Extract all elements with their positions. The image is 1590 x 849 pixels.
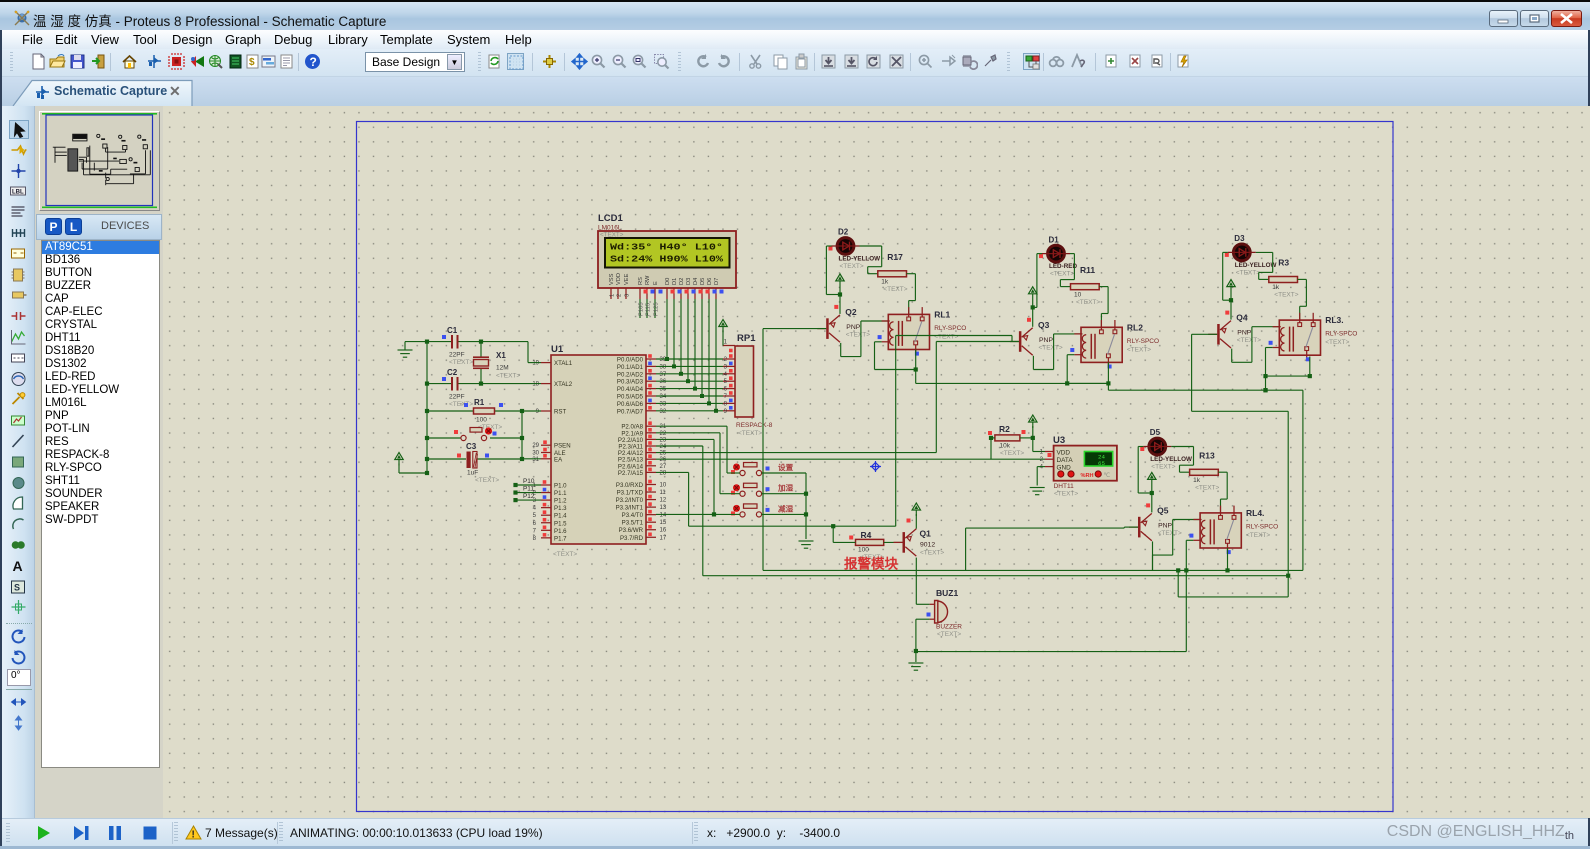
wire buzzer bottom to ground [916, 618, 930, 620]
svg-text:?: ? [310, 55, 317, 69]
svg-text:<TEXT>: <TEXT> [846, 331, 870, 338]
wire D5 cathode to R13 [1171, 446, 1193, 448]
wire D2 anode loop + power [826, 245, 831, 247]
wire R3 to relay coil-top pin [1298, 278, 1307, 280]
svg-text:P1.1: P1.1 [554, 490, 567, 497]
svg-text:PNP: PNP [1039, 337, 1053, 344]
power arrow (Q2 emitter) [836, 274, 844, 281]
svg-text:<TEXT>: <TEXT> [1050, 271, 1074, 278]
wire RL4. coil bottom [1186, 539, 1193, 541]
wire bottom return y=651 [916, 651, 1186, 653]
wire R13 to relay coil-top pin [1218, 471, 1227, 473]
wire long bus y=570.4 (Q2 base net) [763, 569, 1303, 571]
svg-text:<TEXT>: <TEXT> [1054, 491, 1078, 498]
svg-text:34: 34 [660, 394, 667, 400]
svg-text:<TEXT>: <TEXT> [1325, 339, 1349, 346]
svg-text:RL1: RL1 [934, 309, 950, 319]
svg-text:PSEN: PSEN [554, 443, 571, 450]
svg-text:31: 31 [532, 457, 539, 463]
svg-text:1uF: 1uF [467, 470, 478, 477]
svg-text:R11: R11 [1080, 265, 1095, 275]
svg-text:Q5: Q5 [1157, 505, 1169, 515]
transistor Q2 PNP [817, 305, 870, 342]
svg-text:36: 36 [660, 379, 667, 385]
svg-text:P3.6/WR: P3.6/WR [619, 527, 644, 534]
wire D5 anode loop + power [1138, 446, 1143, 448]
svg-text:<TEXT>: <TEXT> [1195, 484, 1219, 491]
wire R2 leads [991, 437, 995, 439]
svg-text:RLY-SPCO: RLY-SPCO [1127, 338, 1159, 345]
svg-text:U1: U1 [551, 344, 564, 355]
svg-text:P115: P115 [646, 303, 652, 316]
svg-text:S: S [14, 582, 20, 592]
svg-text:25: 25 [660, 451, 667, 457]
svg-text:<TEXT>: <TEXT> [934, 333, 958, 340]
svg-text:P0.7/AD7: P0.7/AD7 [617, 408, 644, 415]
svg-text:A: A [13, 558, 23, 574]
svg-text:BUZZER: BUZZER [936, 624, 962, 631]
svg-text:10: 10 [660, 483, 667, 489]
svg-text:RLY-SPCO: RLY-SPCO [1246, 523, 1278, 530]
svg-text:P12: P12 [523, 493, 535, 500]
power arrow (DHT11 VDD) [1029, 415, 1037, 422]
wire DATA net [656, 458, 1045, 460]
svg-text:P3.5/T1: P3.5/T1 [622, 520, 644, 527]
svg-text:C2: C2 [447, 368, 458, 377]
svg-text:<TEXT>: <TEXT> [496, 373, 520, 380]
svg-text:LED-YELLOW: LED-YELLOW [1150, 456, 1192, 463]
svg-text:U3: U3 [1053, 435, 1065, 446]
svg-text:Q1: Q1 [920, 529, 932, 539]
net labels P10 P11 P12 [515, 484, 541, 486]
svg-text:11: 11 [660, 490, 667, 496]
svg-text:14: 14 [660, 513, 667, 519]
DHT11 U3 [1040, 435, 1117, 498]
svg-text:RP1: RP1 [737, 333, 756, 344]
reset button [427, 427, 522, 440]
wire Q2 emitter up [839, 295, 841, 314]
svg-text:Sd:24% H90% L10%: Sd:24% H90% L10% [610, 254, 723, 265]
svg-text:26: 26 [660, 457, 667, 463]
svg-text:RL2: RL2 [1127, 322, 1143, 332]
power arrow (Q1 emitter) [912, 503, 920, 510]
buzzer BUZ1 [927, 588, 963, 638]
svg-text:100: 100 [476, 417, 487, 424]
svg-text:<TEXT>: <TEXT> [883, 286, 907, 293]
svg-text:RS: RS [638, 277, 644, 285]
svg-text:P3.0/RXD: P3.0/RXD [616, 482, 644, 489]
wire Q3 base [936, 341, 1019, 343]
svg-text:<TEXT>: <TEXT> [475, 477, 499, 484]
wire left vertical [426, 342, 428, 473]
svg-text:18: 18 [532, 382, 539, 388]
wire Q2 base [763, 328, 826, 330]
svg-text:<TEXT>: <TEXT> [937, 631, 961, 638]
svg-text:<TEXT>: <TEXT> [449, 359, 473, 366]
svg-text:10: 10 [1074, 291, 1082, 298]
svg-text:P0.0/AD0: P0.0/AD0 [617, 357, 644, 364]
wire C1 row [405, 341, 451, 343]
svg-text:C1: C1 [447, 326, 458, 335]
resistor R1 [427, 398, 541, 431]
svg-text:<TEXT>: <TEXT> [1151, 464, 1175, 471]
svg-text:D4: D4 [693, 278, 699, 285]
LED D5 LED-YELLOW [1140, 428, 1192, 470]
svg-text:R3: R3 [1278, 258, 1289, 268]
svg-text:R17: R17 [887, 252, 903, 262]
svg-text:38: 38 [660, 364, 667, 370]
svg-text:D3: D3 [686, 278, 692, 285]
wire long bus y=528.1 (to Q5 base) [966, 527, 1125, 529]
svg-text:P0.4/AD4: P0.4/AD4 [617, 386, 644, 393]
svg-text:D2: D2 [679, 278, 685, 285]
svg-text:D0: D0 [665, 278, 671, 285]
wire R1/button/C3 right vertical [521, 411, 523, 459]
svg-text:减湿: 减湿 [778, 503, 794, 513]
ground (crystal) [398, 349, 413, 351]
wire D3 cathode to R3 [1256, 251, 1273, 253]
svg-text:P0.3/AD3: P0.3/AD3 [617, 379, 644, 386]
wire Q5 collector to coil top [1152, 541, 1154, 555]
wire D1 cathode to R11 [1070, 253, 1074, 255]
svg-text:R4: R4 [861, 530, 872, 540]
svg-text:<TEXT>: <TEXT> [920, 550, 944, 557]
svg-text:DHT11: DHT11 [1054, 483, 1074, 490]
svg-text:P1.4: P1.4 [554, 513, 567, 520]
svg-text:PNP: PNP [1237, 330, 1251, 337]
resistor R17 [878, 252, 908, 293]
svg-text:!: ! [192, 830, 195, 841]
svg-text:设置: 设置 [778, 462, 794, 472]
svg-text:29: 29 [532, 443, 539, 449]
svg-text:16: 16 [660, 528, 667, 534]
wire Q3 collector to coil top [1032, 356, 1034, 370]
ground (buttons) [799, 540, 814, 542]
svg-text:LED-YELLOW: LED-YELLOW [839, 256, 881, 263]
svg-text:P3.4/T0: P3.4/T0 [622, 512, 644, 519]
svg-text:P105: P105 [639, 302, 645, 316]
svg-text:32: 32 [660, 409, 667, 415]
svg-text:D5: D5 [1150, 428, 1161, 437]
svg-text:65: 65 [1098, 460, 1105, 467]
svg-text:$: $ [249, 57, 255, 68]
svg-text:<TEXT>: <TEXT> [1274, 292, 1298, 299]
push buttons 设置/加湿/减湿 [731, 462, 794, 476]
power arrow (Q4 emitter) [1227, 280, 1235, 287]
svg-text:RL3.: RL3. [1325, 315, 1343, 325]
svg-text:RESPACK-8: RESPACK-8 [736, 422, 773, 429]
svg-text:33: 33 [660, 401, 667, 407]
svg-text:PNP: PNP [1158, 522, 1172, 529]
svg-text:P2.7/A15: P2.7/A15 [618, 470, 644, 477]
svg-text:XTAL2: XTAL2 [554, 381, 573, 388]
svg-text:28: 28 [660, 470, 667, 476]
wire Q5 base [1124, 526, 1138, 528]
capacitor C1 [442, 326, 473, 366]
svg-text:D5: D5 [700, 278, 706, 285]
svg-text:报警模块: 报警模块 [844, 556, 898, 572]
wire long bus y=575.7 (P2.3) [656, 445, 703, 447]
svg-text:D2: D2 [838, 228, 849, 237]
svg-text:X1: X1 [496, 351, 506, 360]
svg-text:22PF: 22PF [449, 352, 465, 359]
svg-text:13: 13 [660, 505, 667, 511]
svg-text:RLY-SPCO: RLY-SPCO [1325, 331, 1357, 338]
svg-text:1k: 1k [881, 278, 889, 285]
relay RL3. RLY-SPCO [1269, 313, 1358, 362]
wire D3 anode loop + power [1223, 251, 1228, 253]
svg-text:RLY-SPCO: RLY-SPCO [934, 325, 966, 332]
power arrow (Q5 emitter) [1148, 472, 1156, 479]
capacitor C2 [442, 368, 473, 408]
svg-text:P3.3/INT1: P3.3/INT1 [616, 505, 644, 512]
ground (buzzer) [908, 662, 923, 664]
power arrow (C3) [395, 453, 403, 460]
svg-text:3: 3 [625, 294, 631, 297]
svg-text:<TEXT>: <TEXT> [1246, 532, 1270, 539]
wire relay common bus y=570.4 right extension [1152, 555, 1154, 570]
svg-text:<TEXT>: <TEXT> [738, 430, 762, 437]
ground (DHT11) [1030, 487, 1045, 489]
svg-text:P0.1/AD1: P0.1/AD1 [617, 364, 644, 371]
svg-text:GND: GND [1057, 465, 1072, 472]
svg-text:<TEXT>: <TEXT> [1158, 530, 1182, 537]
svg-text:1k: 1k [1272, 284, 1280, 291]
svg-text:P1.2: P1.2 [554, 498, 567, 505]
svg-text:D6: D6 [707, 278, 713, 285]
svg-text:23: 23 [660, 437, 667, 443]
wire D1 anode loop + power [1037, 253, 1042, 255]
svg-text:P11: P11 [523, 486, 534, 493]
svg-text:BUZ1: BUZ1 [936, 588, 958, 598]
wire long bus y=526.2 (P2.7 to Q3 base) [656, 471, 689, 473]
svg-text:12: 12 [660, 498, 667, 504]
resistor R11 [1071, 265, 1101, 306]
power arrow (RP1) [719, 320, 727, 327]
transistor Q1 9012 [894, 519, 945, 557]
svg-text:19: 19 [532, 361, 539, 367]
svg-text:RL4.: RL4. [1246, 508, 1264, 518]
svg-text:1k: 1k [1193, 477, 1201, 484]
wire C2 row [427, 383, 451, 385]
resistor R3 [1269, 258, 1299, 299]
svg-text:E: E [653, 281, 659, 285]
wire RL1 coil bottom [875, 341, 882, 343]
svg-text:P3.1/TXD: P3.1/TXD [617, 490, 644, 497]
svg-text:P0.6/AD6: P0.6/AD6 [617, 401, 644, 408]
svg-text:C3: C3 [466, 442, 477, 451]
svg-text:℃: ℃ [1104, 473, 1111, 479]
svg-text:2: 2 [617, 294, 623, 297]
svg-text:24: 24 [660, 444, 667, 450]
transistor Q3 PNP [1010, 318, 1063, 355]
wire Q3 emitter up [1032, 307, 1034, 326]
svg-text:LED-RED: LED-RED [1049, 263, 1077, 270]
capacitor C3 (1uF) [427, 442, 522, 484]
svg-text:Q3: Q3 [1038, 320, 1050, 330]
svg-text:EA: EA [554, 456, 563, 463]
wire DHT11 GND [1037, 466, 1045, 468]
svg-text:21: 21 [660, 424, 667, 430]
svg-text:P3.7/RD: P3.7/RD [620, 535, 644, 542]
svg-text:Wd:35° H40° L10°: Wd:35° H40° L10° [610, 242, 723, 253]
wire R4 leads [833, 541, 855, 543]
svg-text:PNP: PNP [846, 324, 860, 331]
svg-text:P0.2/AD2: P0.2/AD2 [617, 371, 644, 378]
origin marker [870, 461, 881, 472]
svg-text:RW: RW [645, 275, 651, 285]
svg-text:<TEXT>: <TEXT> [1236, 269, 1260, 276]
svg-text:P0.5/AD5: P0.5/AD5 [617, 394, 644, 401]
svg-text:<TEXT>: <TEXT> [449, 401, 473, 408]
svg-text:R2: R2 [999, 424, 1010, 434]
svg-text:P1.6: P1.6 [554, 528, 567, 535]
wire Q5 emitter up [1151, 493, 1153, 512]
svg-text:10k: 10k [1000, 443, 1011, 450]
power arrow (Q3 emitter) [1029, 287, 1037, 294]
wire Q1 collector to buzzer [915, 558, 917, 605]
svg-text:P1.5: P1.5 [554, 520, 567, 527]
transistor Q5 PNP [1129, 503, 1182, 540]
svg-text:1: 1 [610, 294, 616, 297]
resistor R13 [1190, 450, 1220, 491]
relay RL1 RLY-SPCO [878, 307, 967, 356]
resistor pack RP1 RESPACK-8 [723, 333, 773, 437]
wire RL2 coil bottom [1067, 354, 1074, 356]
wire D2 cathode to R17 [860, 245, 882, 247]
svg-text:RST: RST [554, 409, 566, 416]
LED D2 LED-YELLOW [829, 228, 881, 270]
svg-text:9012: 9012 [920, 542, 935, 549]
microcontroller U1 AT89C51 [532, 344, 667, 558]
wire buttons left (P2.0-P2.2 staircase) [656, 425, 727, 427]
wire Q4 base [1192, 333, 1218, 335]
svg-text:R13: R13 [1199, 450, 1215, 460]
LED D3 LED-YELLOW [1225, 234, 1277, 276]
svg-text:P10: P10 [523, 478, 535, 485]
svg-text:35: 35 [660, 387, 667, 393]
svg-text:37: 37 [660, 372, 667, 378]
svg-text:<TEXT>: <TEXT> [1000, 450, 1024, 457]
svg-text:LED-YELLOW: LED-YELLOW [1235, 262, 1277, 269]
wire R4 tap [832, 526, 834, 542]
svg-text:D1: D1 [672, 278, 678, 285]
svg-text:LBL: LBL [12, 190, 24, 196]
svg-text:LCD1: LCD1 [598, 213, 624, 224]
svg-text:加湿: 加湿 [777, 483, 794, 493]
wire RL3. coil bottom [1266, 347, 1273, 349]
svg-text:27: 27 [660, 464, 667, 470]
svg-text:VSS: VSS [609, 273, 615, 285]
svg-text:<TEXT>: <TEXT> [1039, 344, 1063, 351]
crystal X1 [473, 342, 520, 384]
resistor R4 [849, 530, 884, 561]
svg-text:12M: 12M [496, 365, 509, 372]
svg-text:P1.0: P1.0 [554, 483, 567, 490]
svg-text:D1: D1 [1049, 235, 1060, 244]
svg-text:D3: D3 [1234, 234, 1245, 243]
LED D1 LED-RED [1039, 235, 1077, 277]
svg-text:XTAL1: XTAL1 [554, 360, 573, 367]
svg-text:<TEXT>: <TEXT> [553, 551, 577, 558]
svg-text:VEE: VEE [624, 273, 630, 285]
svg-text:30: 30 [532, 451, 539, 457]
svg-text:<TEXT>: <TEXT> [1127, 346, 1151, 353]
svg-text:<TEXT>: <TEXT> [1237, 337, 1261, 344]
svg-text:22PF: 22PF [449, 394, 465, 401]
svg-text:Q2: Q2 [845, 307, 857, 317]
wire Q4 collector to coil top [1231, 349, 1233, 363]
svg-text:R1: R1 [474, 398, 485, 407]
wire R11 to relay coil-top pin [1099, 286, 1108, 288]
wire R17 to relay coil-top pin [907, 273, 916, 275]
svg-text:P3.2/INT0: P3.2/INT0 [616, 497, 644, 504]
svg-text:17: 17 [660, 535, 667, 541]
relay RL2 RLY-SPCO [1070, 320, 1159, 369]
svg-text:P1.7: P1.7 [554, 535, 567, 542]
svg-text:VDD: VDD [616, 273, 622, 285]
wire Q4 emitter up [1230, 300, 1232, 319]
wire buttons right + ground [762, 472, 807, 474]
svg-text:VDD: VDD [1057, 450, 1071, 457]
svg-text:P125: P125 [654, 302, 660, 316]
svg-text:D7: D7 [714, 278, 720, 285]
relay RL4. RLY-SPCO [1189, 506, 1278, 554]
svg-text:100: 100 [858, 547, 869, 554]
svg-text:%RH: %RH [1081, 473, 1094, 479]
LCD LCD1 LM016L [598, 213, 736, 299]
svg-text:<TEXT>: <TEXT> [1076, 299, 1100, 306]
svg-text:22: 22 [660, 431, 667, 437]
svg-text:15: 15 [660, 520, 667, 526]
svg-text:DATA: DATA [1057, 457, 1074, 464]
transistor Q4 PNP [1208, 311, 1261, 348]
svg-text:P1.3: P1.3 [554, 505, 567, 512]
wire LCD data bus to P0/RP1 [666, 299, 668, 359]
resistor R2 [988, 424, 1026, 457]
wire Q2 collector to coil top [840, 343, 842, 357]
svg-text:Q4: Q4 [1236, 313, 1248, 323]
svg-text:<TEXT>: <TEXT> [840, 263, 864, 270]
wire LCD RS/RW/E nets [639, 299, 641, 318]
